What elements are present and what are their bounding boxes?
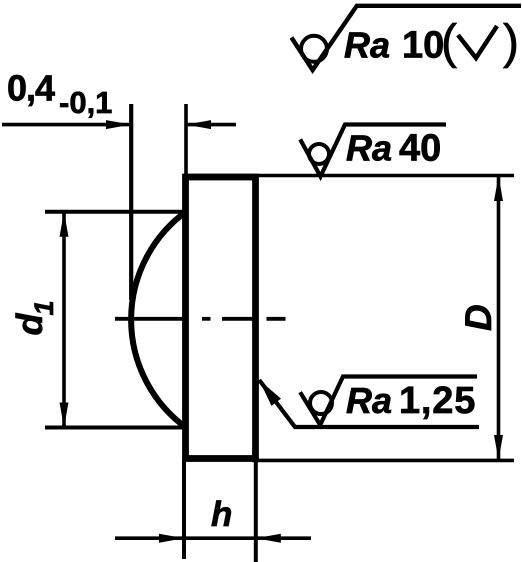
D bottom extension line [252, 459, 514, 463]
arrowhead right at x=131 [106, 120, 131, 129]
checkmark in parens [458, 26, 497, 58]
extension line at x=186 [184, 104, 188, 177]
svg-text:): ) [503, 16, 519, 69]
spherical head arc [131, 212, 186, 428]
svg-text:0,4: 0,4 [7, 68, 55, 109]
svg-text:D: D [458, 304, 499, 331]
arrowhead right at (184,538.2) [159, 534, 184, 543]
svg-text:(: ( [441, 16, 457, 69]
arrowhead left at x=186 [186, 120, 211, 129]
arrowhead left at (255.8,538.2) [256, 534, 281, 543]
arrowhead down at (64,427.5) [60, 403, 69, 428]
wire: 0,4 dimension line left segment [2, 123, 131, 127]
svg-text:1,25: 1,25 [399, 380, 476, 422]
Ra 10 roughness symbol (top right) [291, 6, 521, 70]
arrowhead down at (498.5,460) [494, 435, 503, 460]
d1 dimension line [62, 212, 66, 428]
h left extension line [182, 461, 186, 559]
leader arrowhead pointing up-left [259, 380, 281, 406]
svg-text:-0,1: -0,1 [59, 85, 112, 120]
Ra 1,25 leader line [259, 380, 479, 427]
wire: 0,4 dimension line right segment [186, 123, 236, 127]
body rectangle (disc cross-section) [186, 177, 256, 459]
Ra 10 circle [301, 36, 327, 62]
d1 top extension line [45, 210, 186, 214]
svg-text:Ra: Ra [346, 380, 392, 421]
svg-text:Ra: Ra [344, 25, 390, 66]
svg-text:40: 40 [399, 128, 441, 170]
svg-text:Ra: Ra [346, 128, 392, 169]
D top extension line [258, 174, 514, 178]
D dimension line [497, 176, 501, 460]
Ra 40 roughness symbol [300, 125, 446, 177]
h dimension line [115, 536, 311, 540]
svg-text:h: h [211, 495, 232, 534]
Ra 1,25 roughness symbol [300, 377, 477, 426]
Ra 40 circle [309, 144, 329, 164]
h right extension line [254, 460, 258, 562]
Ra 1,25 circle [310, 392, 332, 414]
arrowhead up at (64,211.7) [60, 212, 69, 237]
centerline (dash-dot) [115, 317, 184, 321]
d1 bottom extension line [45, 426, 186, 430]
arrowhead up at (498.5,176) [494, 176, 503, 201]
extension line at x=131 [129, 104, 133, 300]
svg-text:10: 10 [402, 25, 444, 67]
